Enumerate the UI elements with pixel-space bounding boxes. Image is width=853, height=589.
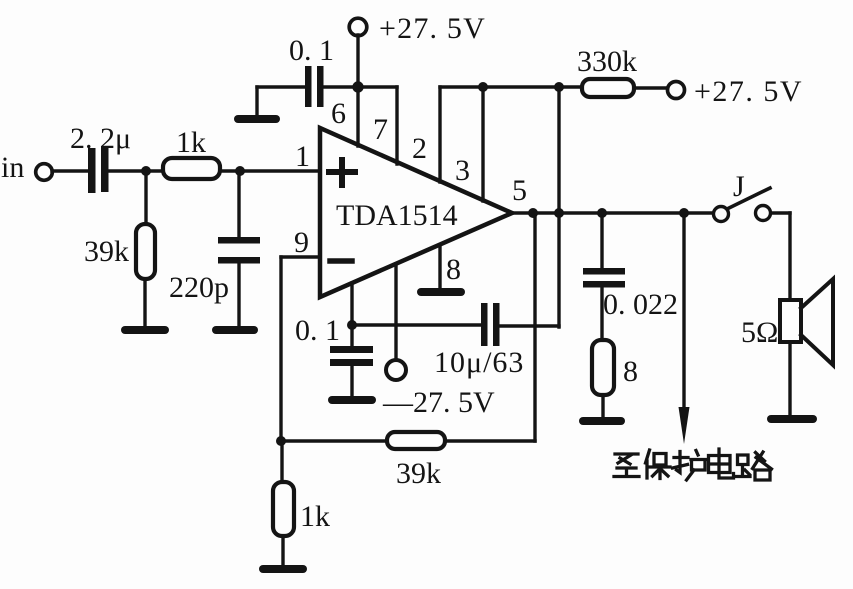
node junction bus x559 <box>554 82 564 92</box>
svg-text:9: 9 <box>294 226 309 259</box>
label to-protection-circuit (Chinese) <box>614 449 772 480</box>
resistor R4 39k feedback <box>387 432 445 490</box>
wire R3 to terminal <box>634 86 668 89</box>
arrow to protection circuit <box>679 407 690 444</box>
wire node to C6 <box>600 213 603 268</box>
svg-text:1: 1 <box>295 140 310 173</box>
wire C1 to R1 <box>109 169 163 172</box>
wire node A down <box>144 171 147 224</box>
resistor R3 330k <box>577 45 637 97</box>
char hu <box>673 451 707 481</box>
wire pin 2 vertical <box>438 87 441 182</box>
ground <box>125 326 165 334</box>
capacitor C4 0.1 bottom <box>295 314 373 397</box>
svg-text:8: 8 <box>446 253 461 286</box>
svg-text:0. 1: 0. 1 <box>295 314 340 347</box>
wire right top bus <box>440 85 582 88</box>
input terminal in <box>1 151 52 184</box>
wire pin 3 vertical <box>481 87 484 201</box>
svg-text:—27. 5V: —27. 5V <box>382 386 495 419</box>
svg-text:220p: 220p <box>169 271 229 304</box>
svg-text:+27. 5V: +27. 5V <box>694 75 803 108</box>
ground <box>216 326 254 334</box>
wire to protection arrow <box>682 213 685 412</box>
svg-text:3: 3 <box>455 154 470 187</box>
wire C2 to ground <box>237 263 240 327</box>
terminal +27.5V top <box>349 12 486 45</box>
svg-text:7: 7 <box>373 113 388 146</box>
capacitor C6 0.022 <box>583 268 678 321</box>
wire feedback bottom right <box>445 439 535 442</box>
capacitor C1 2.2u <box>70 122 131 193</box>
wire C5 right lead <box>499 324 559 327</box>
terminal -27.5V <box>382 360 495 419</box>
speaker LS 5ohm <box>741 279 833 365</box>
capacitor C5 10u/63 <box>434 303 524 379</box>
wire output line <box>512 211 713 214</box>
wire feedback bottom left <box>281 439 387 442</box>
wire pin 9 horizontal <box>281 255 320 258</box>
wire node to C5 lead <box>352 323 481 326</box>
ground <box>583 417 621 425</box>
wire pin 9 vertical down <box>279 257 282 441</box>
wire input to C1 <box>52 169 89 172</box>
node feedback junction <box>276 436 286 446</box>
wire feedback vertical x535 <box>533 213 536 441</box>
wire C3 to pin 7 corner (left top bus) <box>323 85 397 88</box>
wire R5 to ground <box>281 536 284 566</box>
node A junction <box>141 166 151 176</box>
svg-text:5Ω: 5Ω <box>741 316 778 349</box>
char zhi <box>614 454 639 477</box>
node B junction <box>235 166 245 176</box>
svg-text:in: in <box>1 151 24 184</box>
svg-text:+27. 5V: +27. 5V <box>379 12 486 45</box>
svg-text:5: 5 <box>512 174 527 207</box>
node output junction <box>528 208 538 218</box>
svg-text:8: 8 <box>623 355 638 388</box>
svg-text:J: J <box>733 170 745 203</box>
wire stub under triangle to 0.1 node <box>350 283 353 325</box>
svg-text:1k: 1k <box>300 500 330 533</box>
wire node to R5 <box>280 441 283 482</box>
wire C6 to R6 <box>600 287 603 340</box>
switch J <box>714 170 771 222</box>
resistor R2 39k <box>84 224 155 279</box>
wire switch to speaker <box>771 213 790 300</box>
ground <box>771 415 813 423</box>
svg-text:6: 6 <box>331 97 346 130</box>
char lu <box>737 452 772 480</box>
node 0.022 junction <box>597 208 607 218</box>
char dian <box>709 449 734 478</box>
resistor R5 1k <box>273 482 330 536</box>
terminal +27.5V right <box>668 75 804 108</box>
svg-text:2: 2 <box>412 132 427 165</box>
node 0.1 junction <box>347 320 357 330</box>
svg-text:TDA1514: TDA1514 <box>336 199 458 232</box>
node junction pin3 bus <box>478 82 488 92</box>
wire R6 to ground <box>601 395 604 418</box>
wire R2 to ground <box>143 279 146 327</box>
svg-text:2. 2μ: 2. 2μ <box>70 122 131 155</box>
wire speaker to ground <box>788 342 791 416</box>
svg-text:39k: 39k <box>84 235 129 268</box>
op-amp U1 TDA1514 <box>320 128 512 297</box>
wire node B down <box>237 171 240 237</box>
resistor R1 1k <box>163 126 220 179</box>
ground <box>263 565 303 573</box>
wire pin 6 vertical <box>356 35 359 146</box>
ground (top left) <box>238 115 276 123</box>
wire vertical bus-to-output x559 <box>557 87 560 327</box>
ground <box>332 396 372 404</box>
wire stub to -27.5V terminal <box>394 264 397 361</box>
node junction x559 output <box>554 208 564 218</box>
char bao <box>646 450 671 479</box>
svg-text:1k: 1k <box>176 126 206 159</box>
svg-text:39k: 39k <box>396 457 441 490</box>
wire R1 to pin 1 <box>220 169 320 172</box>
svg-text:330k: 330k <box>577 45 637 78</box>
capacitor C3 0.1 <box>289 34 334 107</box>
svg-text:10μ/63: 10μ/63 <box>434 346 524 379</box>
svg-text:0. 022: 0. 022 <box>603 288 678 321</box>
svg-text:0. 1: 0. 1 <box>289 34 334 67</box>
wire ground to C3 <box>257 87 305 117</box>
resistor R6 8 <box>592 340 638 395</box>
node protection junction <box>679 208 689 218</box>
capacitor C2 220p <box>169 237 260 304</box>
wire pin 8 stub <box>438 245 441 289</box>
ground <box>421 288 461 296</box>
wire pin 7 vertical <box>395 87 398 164</box>
node junction pin6 bus <box>352 81 363 92</box>
